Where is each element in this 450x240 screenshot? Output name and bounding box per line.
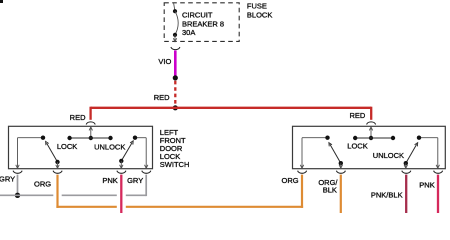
circuit breaker 8 top terminal <box>173 9 177 13</box>
left switch feed junction <box>89 136 93 140</box>
connector left box pin3 (PNK) <box>117 171 126 174</box>
connector at left switch feed <box>86 122 95 125</box>
right switch LOCK label <box>347 141 367 150</box>
right switch bus right contact <box>391 136 395 140</box>
svg-text:RED: RED <box>349 111 365 120</box>
circuit breaker 8 element <box>175 11 178 35</box>
right switch lock blade <box>329 143 341 164</box>
circuit breaker 8 output lead with arrow <box>173 35 176 42</box>
left switch bus right contact <box>108 136 112 140</box>
wire PNK/BLK label <box>371 190 403 199</box>
right switch unlock blade <box>406 143 418 164</box>
wire RED (dashed segment) <box>174 81 176 105</box>
left switch unlock blade <box>121 141 133 161</box>
wire ORG pin2 label <box>34 180 51 189</box>
connector left box pin1 (GRY) <box>13 171 22 174</box>
right switch lock-side contact <box>325 136 329 140</box>
left switch LOCK label <box>57 142 77 151</box>
svg-text:ORG: ORG <box>282 176 299 185</box>
left switch UNLOCK label <box>94 142 125 151</box>
splice on RED bus <box>173 105 178 110</box>
right switch feed entry arrow <box>369 127 372 138</box>
left switch lock-side contact <box>41 136 45 140</box>
svg-text:VIO: VIO <box>158 57 171 66</box>
svg-text:PNK: PNK <box>419 181 434 190</box>
connector right box pin4 (PNK) <box>434 171 443 174</box>
left switch unlock-side contact <box>133 136 137 140</box>
wire ORG/BLK from right box pin2 <box>340 175 342 213</box>
svg-text:FUSE: FUSE <box>247 1 267 10</box>
left front door lock switch (box) <box>9 126 153 168</box>
wire ORG from left box pin2 <box>56 175 58 208</box>
wire RED bus (horizontal) <box>91 107 372 109</box>
right switch UNLOCK label <box>373 151 404 160</box>
left switch common bus <box>70 137 111 139</box>
svg-text:BLOCK: BLOCK <box>247 10 272 19</box>
left switch unlock-side contact wire <box>135 138 148 169</box>
right switch unlock blade pivot <box>404 161 408 165</box>
circuit breaker 8 bottom terminal <box>173 33 177 37</box>
wire RED drop to left switch <box>89 107 91 120</box>
wire PNK right label <box>419 181 434 190</box>
svg-text:GRY: GRY <box>0 174 15 183</box>
connector at fuse block output <box>171 47 180 50</box>
connector right box pin3 (PNK/BLK) <box>402 171 411 174</box>
wire GRY from left box pin1 <box>17 175 19 196</box>
svg-text:RED: RED <box>154 93 170 102</box>
fuse block label <box>247 1 272 19</box>
left switch lock-side contact wire <box>18 137 44 139</box>
circuit breaker 8 value label <box>182 11 224 38</box>
left switch bus left contact <box>67 136 71 140</box>
right switch unlock-side contact wire <box>419 138 440 169</box>
svg-text:RED: RED <box>70 113 86 122</box>
wire ORG right label <box>282 176 299 185</box>
left switch lock blade pivot <box>55 160 59 164</box>
splice of VIO and RED <box>173 75 178 80</box>
svg-text:LOCK: LOCK <box>347 141 367 150</box>
circuit breaker 8 top lead <box>174 3 175 11</box>
svg-text:30A: 30A <box>182 28 195 37</box>
wire PNK from left box pin3 <box>120 175 122 213</box>
connector at right switch feed <box>367 122 376 125</box>
svg-text:LOCK: LOCK <box>57 142 77 151</box>
connector right box pin1 (ORG) <box>298 171 307 174</box>
right switch org output lead <box>300 138 303 169</box>
corner artifact <box>0 0 3 3</box>
right switch lock output lead <box>339 163 342 168</box>
right switch unlock-side contact <box>417 136 421 140</box>
svg-text:PNK: PNK <box>102 176 117 185</box>
connector left box pin4 (GRY) <box>142 171 151 174</box>
wire RED right label <box>349 111 365 120</box>
right switch feed junction <box>369 136 373 140</box>
right switch lock blade pivot <box>339 161 343 165</box>
wire ORG from right box pin1 <box>301 175 303 208</box>
connector left box pin2 (ORG) <box>53 171 62 174</box>
svg-text:UNLOCK: UNLOCK <box>373 151 404 160</box>
connector right box pin2 (ORG/BLK) <box>336 171 345 174</box>
svg-text:GRY: GRY <box>127 176 143 185</box>
right switch bus left contact <box>353 136 357 140</box>
right door lock switch (box) <box>293 126 446 168</box>
svg-text:ORG: ORG <box>34 180 51 189</box>
fuse block (dashed box) <box>164 3 239 42</box>
wire PNK from right box pin4 <box>437 175 439 213</box>
wire RED dashed label <box>154 93 170 102</box>
wire GRY net horizontal <box>0 194 146 196</box>
left switch unlock output lead <box>120 161 123 168</box>
wire ORG link horizontal <box>56 206 303 208</box>
wire RED drop to right switch <box>370 107 372 120</box>
wire GRY pin4 label <box>127 176 143 185</box>
left switch lock blade <box>46 141 58 162</box>
left front door lock switch label <box>160 128 190 169</box>
left switch lock output lead <box>56 162 59 168</box>
wire GRY pin1 label <box>0 174 15 183</box>
svg-text:UNLOCK: UNLOCK <box>94 142 125 151</box>
wire PNK pin3 label <box>102 176 117 185</box>
wire GRY from left box pin4 <box>145 175 147 197</box>
left switch gry output lead <box>16 138 19 169</box>
right switch unlock output lead <box>404 163 407 168</box>
svg-text:PNK/BLK: PNK/BLK <box>371 190 403 199</box>
svg-text:BLK: BLK <box>323 186 337 195</box>
svg-text:BREAKER 8: BREAKER 8 <box>182 19 224 28</box>
splice on GRY net <box>15 193 20 198</box>
svg-text:CIRCUIT: CIRCUIT <box>182 11 213 20</box>
right switch lock-side contact wire <box>302 137 328 139</box>
wire RED left label <box>70 113 86 122</box>
wire VIO label <box>158 57 171 66</box>
wire PNK/BLK from right box pin3 <box>405 175 407 213</box>
wire VIO from fuse block <box>174 50 177 76</box>
left switch feed entry arrow <box>89 127 92 138</box>
wire ORG/BLK label <box>318 178 338 195</box>
left switch unlock blade pivot <box>119 159 123 163</box>
svg-text:SWITCH: SWITCH <box>160 160 190 169</box>
right switch common bus <box>355 137 393 139</box>
